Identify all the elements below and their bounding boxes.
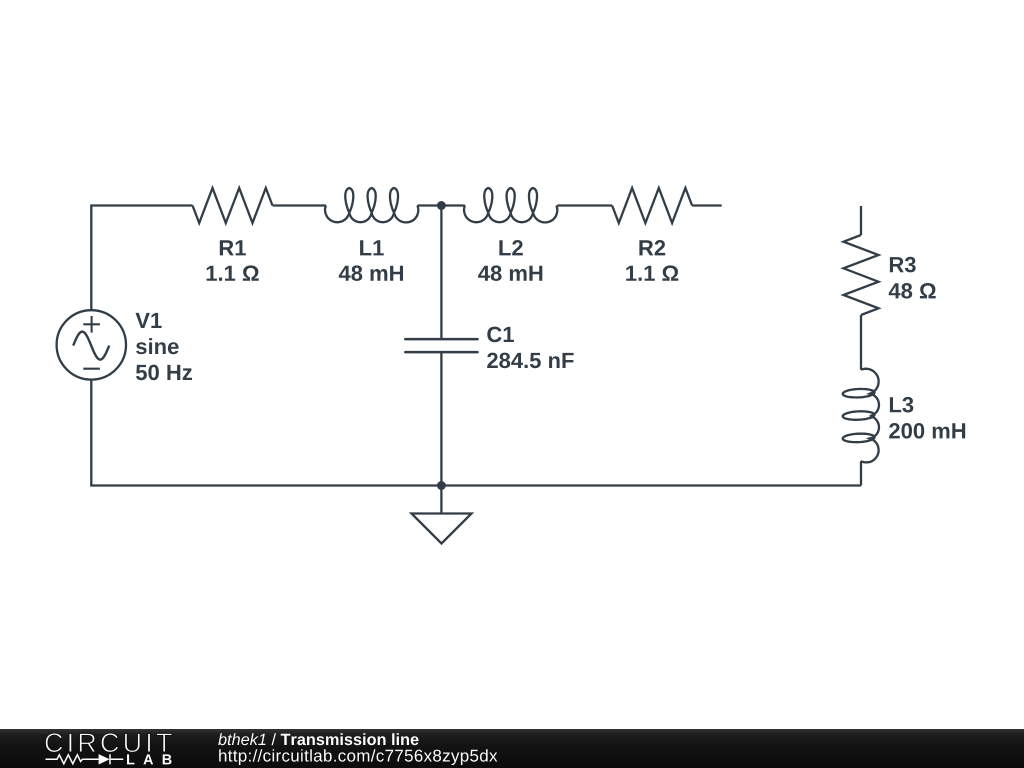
label R2 value 1.1 Ω xyxy=(626,265,678,280)
node A junction dot xyxy=(437,201,446,210)
inductor L2 xyxy=(464,188,557,222)
wire R1 to L1 xyxy=(273,204,326,206)
label L3 value 200 mH xyxy=(889,423,965,439)
label C1 xyxy=(487,327,514,343)
label R2 xyxy=(639,240,665,255)
wire L1 to node A xyxy=(417,204,441,206)
wire R2 open end xyxy=(692,204,722,206)
inductor L1 xyxy=(325,188,418,222)
node B junction dot (ground node) xyxy=(437,481,446,490)
V1 sine wave xyxy=(73,332,109,360)
label R1 value 1.1 Ω xyxy=(207,265,259,280)
label V1 value 50 Hz xyxy=(136,365,192,381)
wire R3 to L3 xyxy=(860,315,862,370)
V1 minus sign xyxy=(83,368,100,370)
label V1 xyxy=(136,313,162,328)
CircuitLab logo CIRCUIT xyxy=(45,733,171,752)
label R3 xyxy=(890,257,916,273)
wire L3 to bus xyxy=(860,461,862,485)
label R1 xyxy=(220,240,246,255)
bottom bus wire xyxy=(90,484,861,486)
capacitor C1 xyxy=(405,339,477,352)
CircuitLab logo squiggle (resistor+diode) xyxy=(46,754,124,764)
resistor R2 xyxy=(612,188,692,223)
wire top-left from V1 to R1 xyxy=(91,206,192,311)
label V1 value sine xyxy=(136,338,179,354)
CircuitLab logo LAB xyxy=(127,754,172,764)
label R3 value 48 Ω xyxy=(889,283,936,299)
label L3 xyxy=(890,397,913,413)
wire C1 bottom lead xyxy=(440,352,442,485)
wire V1 bottom to bus xyxy=(90,379,92,485)
resistor R3 xyxy=(844,235,879,315)
footer bar background xyxy=(0,729,1024,768)
V1 plus sign xyxy=(83,316,100,333)
wire C1 top lead xyxy=(440,206,442,340)
wire node A to L2 xyxy=(441,204,465,206)
label L1 xyxy=(360,240,384,255)
label L2 xyxy=(499,240,522,255)
inductor L3 xyxy=(843,369,879,463)
resistor R1 xyxy=(193,188,273,223)
label C1 value 284.5 nF xyxy=(487,353,573,369)
ground symbol xyxy=(412,514,472,544)
ground stub wire xyxy=(440,486,442,514)
wire stub above R3 xyxy=(860,206,862,235)
label L2 value 48 mH xyxy=(478,265,542,281)
wire L2 to R2 xyxy=(557,204,612,206)
voltage source V1 circle xyxy=(57,310,126,379)
label L1 value 48 mH xyxy=(339,265,403,281)
footer title text xyxy=(218,733,265,745)
